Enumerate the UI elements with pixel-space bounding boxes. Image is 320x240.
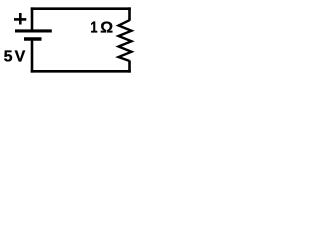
wire top: [31, 7, 131, 10]
battery V1 positive plate (long): [15, 29, 52, 32]
battery polarity plus sign: [14, 13, 26, 25]
svg-text:5: 5: [4, 49, 13, 66]
svg-text:V: V: [15, 49, 26, 66]
svg-text:1: 1: [90, 19, 97, 37]
wire right upper (resistor top lead): [128, 7, 131, 20]
svg-text:Ω: Ω: [100, 20, 113, 37]
wire left upper (battery + lead): [31, 7, 34, 31]
wire right lower (resistor bottom lead): [128, 60, 131, 72]
wire left lower (battery - lead): [31, 39, 34, 73]
wire bottom: [31, 70, 131, 73]
resistor R1 zigzag body: [119, 20, 132, 61]
battery V1 negative plate (short): [24, 37, 42, 40]
